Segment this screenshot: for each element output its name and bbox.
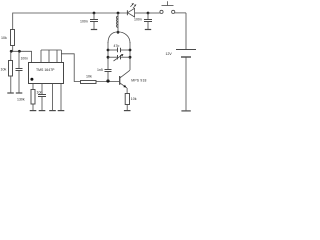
trimmer arrow [114, 54, 124, 61]
resistor R1 10k (top left vertical) [11, 30, 15, 46]
capacitor C5 trimmer (horizontal in tank) [108, 56, 118, 58]
node junction dot B [18, 50, 21, 53]
capacitor C2 10n (below IC) [38, 94, 46, 96]
svg-text:100n: 100n [134, 18, 142, 22]
wire IC top pin 3 [48, 50, 50, 63]
svg-text:1n5: 1n5 [97, 68, 103, 72]
IC bottom pin 2 wire [41, 83, 43, 94]
svg-text:10k: 10k [86, 74, 92, 78]
wire bus over IC pins [41, 49, 61, 51]
wire IC top pin 5 [60, 50, 62, 63]
ground (C2) [39, 110, 46, 112]
inductor L1 [117, 13, 119, 32]
wire R1 bottom to bus [12, 46, 14, 52]
svg-text:47p: 47p [114, 44, 120, 48]
svg-text:TMS 1647P: TMS 1647P [36, 68, 55, 72]
svg-text:100n: 100n [80, 20, 88, 24]
ground (pin4) [58, 110, 65, 112]
Q1 collector [120, 70, 130, 78]
resistor R5 10k (emitter) [125, 94, 129, 105]
capacitor C6 1n5 (series on left rail) [105, 69, 112, 71]
battery B1 12V [185, 13, 187, 49]
svg-text:10k: 10k [1, 68, 7, 72]
IC pin1 marker dot [30, 78, 33, 81]
capacitor C3 100n (top middle) [93, 13, 95, 19]
svg-text:100n: 100n [21, 57, 29, 61]
node coil top dot [117, 12, 120, 15]
wire left rail [12, 13, 14, 30]
ground (C7) [145, 29, 151, 31]
svg-text:10k: 10k [1, 36, 7, 40]
transistor Q1 MPS918 [119, 76, 121, 85]
node tank top dot [117, 31, 120, 34]
node top rail dot (C3) [93, 12, 96, 15]
IC bottom pin 1 wire [32, 83, 34, 90]
node right rail dot [147, 12, 150, 15]
IC bottom pin 4 wire [60, 83, 62, 111]
node dots tank rows [107, 49, 110, 52]
wire IC top pin 2 [40, 50, 42, 63]
ground (pin3) [49, 110, 56, 112]
wire tank right rail [129, 42, 131, 70]
ground (R4) [30, 110, 37, 112]
resistor R4 130k (below IC) [31, 90, 35, 105]
svg-text:12V: 12V [166, 52, 173, 56]
svg-text:MPS 918: MPS 918 [131, 78, 146, 82]
ground (battery) [181, 110, 190, 112]
svg-text:130k: 130k [17, 98, 25, 102]
IC bottom pin 3 wire [52, 83, 54, 111]
LED arrows [130, 3, 133, 7]
wire R3 to base node [96, 81, 120, 83]
svg-text:10n: 10n [37, 90, 43, 94]
wire top rail right of LED [135, 12, 148, 14]
resistor R2 10k (lower left vertical) [10, 51, 12, 61]
ground (C1) [16, 92, 22, 94]
ground (R2) [7, 92, 14, 94]
capacitor C7 100n (right) [147, 13, 149, 19]
IC U1 TMS box [29, 63, 64, 84]
wire net1 bus above IC [11, 51, 31, 63]
wire tank dome arc [108, 32, 130, 43]
switch S1 [148, 12, 160, 14]
wire IC top pin 4 [56, 50, 58, 63]
wire branch to base resistor [61, 54, 81, 82]
svg-text:10k: 10k [131, 97, 137, 101]
Q1 emitter [120, 83, 127, 88]
wire top rail [13, 12, 128, 14]
wire tank left rail [107, 42, 109, 69]
ground (C3) [91, 29, 97, 31]
resistor R3 10k (horizontal base) [81, 81, 97, 84]
diode D1 LED [126, 10, 128, 15]
capacitor C4 47p (horizontal in tank) [108, 49, 118, 51]
ground (R5) [124, 110, 131, 112]
node base junction [106, 79, 109, 82]
node junction dot A [10, 50, 13, 53]
capacitor C1 100n (left, vertical) [18, 51, 20, 68]
